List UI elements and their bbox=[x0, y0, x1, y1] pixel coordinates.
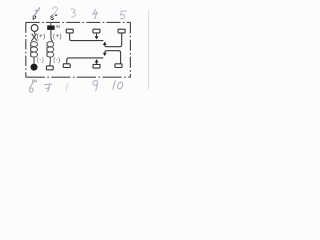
pin 6 terminal (filled dot) bbox=[31, 64, 38, 71]
svg-text:IN: IN bbox=[56, 24, 61, 30]
svg-text:(-): (-) bbox=[53, 56, 60, 63]
pin 9 terminal bbox=[93, 64, 100, 68]
coil L2 (3 loops) bbox=[47, 42, 54, 57]
svg-text:(-): (-) bbox=[37, 56, 44, 63]
arrow down pin4 bbox=[95, 36, 99, 39]
pin 4 terminal bbox=[93, 29, 100, 33]
pin 3 terminal bbox=[66, 29, 73, 33]
wire pin8 to contact bar 2 bbox=[67, 58, 104, 64]
pin 5 terminal bbox=[118, 29, 125, 33]
handwritten digit 3 bbox=[71, 9, 75, 17]
input block S (filled rect, pin 2) bbox=[47, 25, 54, 30]
handwritten digit 4 bbox=[93, 10, 97, 19]
wire pin9 up bbox=[96, 62, 98, 64]
wire pin10 L-shape bbox=[105, 51, 121, 64]
pin 8 terminal bbox=[63, 64, 70, 68]
coil L1 (3 loops) bbox=[31, 42, 38, 57]
wire pin5 L-shape bbox=[105, 33, 122, 47]
arrow down contact 2 bbox=[103, 53, 107, 56]
pin 7 terminal bbox=[46, 66, 53, 70]
svg-text:IN: IN bbox=[32, 79, 37, 85]
wire coil L1 to pin 6 bbox=[33, 57, 35, 64]
arrow up contact 1 bbox=[103, 42, 107, 45]
handwritten digit 8 (very faint) bbox=[66, 84, 68, 91]
handwritten digit 2 bbox=[53, 7, 58, 15]
pilot lamp P (circle) bbox=[31, 25, 38, 32]
handwritten digit 7 bbox=[45, 84, 52, 92]
handwritten digit 6 bbox=[30, 82, 34, 92]
svg-text:(+): (+) bbox=[37, 33, 46, 40]
wire below S block bbox=[51, 30, 53, 41]
wire pin4 down bbox=[96, 33, 98, 36]
scan artifact right edge line bbox=[148, 10, 150, 90]
X kink on lamp wire bbox=[32, 34, 37, 41]
handwritten digit 5 bbox=[120, 11, 126, 19]
wire below lamp bbox=[34, 32, 36, 35]
enclosure dash-dot border bbox=[26, 22, 131, 77]
wire pin3 to contact bar 1 bbox=[70, 33, 104, 41]
pin 10 terminal bbox=[115, 64, 122, 68]
wire coil L2 to pin 7 bbox=[49, 57, 52, 66]
handwritten digit 9 bbox=[93, 80, 98, 90]
svg-text:S: S bbox=[50, 15, 54, 22]
arrow up pin9 bbox=[95, 59, 99, 62]
svg-text:(+): (+) bbox=[53, 33, 62, 40]
handwritten digit 10 bbox=[113, 81, 123, 90]
handwritten digit 1 bbox=[34, 8, 40, 17]
